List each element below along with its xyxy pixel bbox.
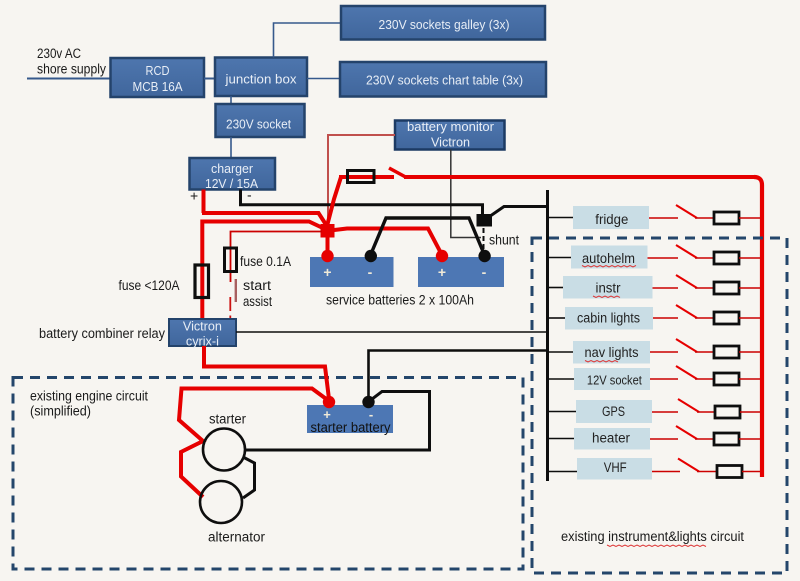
wire segment fridge	[695, 217, 714, 219]
wire bus stub to fridge	[549, 217, 573, 219]
wire positive node to main fuse feed	[202, 222, 327, 320]
label existing engine circuit (simplified)	[30, 389, 148, 419]
svg-text:VHF: VHF	[604, 460, 627, 475]
wire starter motor loop (black)	[245, 392, 430, 451]
wire segment nav lights	[695, 351, 714, 353]
wire segment instr	[695, 287, 714, 289]
wire junction box to 230V socket	[230, 96, 232, 104]
shunt block	[477, 214, 493, 227]
charger 12V/15A	[190, 158, 276, 191]
wire segment heater	[739, 438, 760, 440]
wire positive node to service battery 1 plus	[326, 237, 330, 255]
switch heater	[676, 426, 697, 439]
load row fridge	[549, 205, 760, 229]
wire segment VHF	[697, 471, 717, 473]
svg-text:(simplified): (simplified)	[30, 404, 91, 419]
dashed frame existing engine circuit	[13, 378, 523, 570]
svg-text:GPS: GPS	[602, 404, 625, 419]
wire black bridge battery minus terminals	[371, 218, 485, 255]
svg-text:-: -	[368, 264, 373, 280]
wire thin red to fuse 0.1A	[231, 232, 323, 283]
fuse heater	[714, 433, 739, 445]
switch nav lights	[676, 339, 697, 352]
svg-text:existing instrument&lights cir: existing instrument&lights circuit	[561, 529, 744, 544]
wire segment fridge	[649, 217, 678, 219]
load row heater	[549, 426, 760, 450]
wire bus stub to heater	[549, 438, 574, 440]
wire red zigzag starter feed	[179, 389, 329, 498]
wire segment autohelm	[648, 257, 679, 259]
svg-text:+: +	[438, 264, 446, 280]
terminal battery1 plus	[321, 250, 333, 262]
terminal battery1 minus	[365, 250, 377, 262]
box 230V socket	[216, 104, 305, 137]
terminal starter battery minus	[362, 396, 374, 408]
battery monitor Victron	[395, 120, 505, 150]
breaker RCD MCB 16A	[111, 58, 205, 97]
svg-text:230V socket: 230V socket	[226, 117, 291, 132]
svg-text:nav lights: nav lights	[585, 345, 639, 360]
fuse VHF	[717, 466, 742, 478]
fuse autohelm	[714, 252, 739, 264]
svg-text:fuse 0.1A: fuse 0.1A	[240, 254, 291, 269]
label start assist	[243, 278, 272, 309]
fuse <120A symbol	[195, 265, 209, 298]
fuse 12V socket	[714, 373, 739, 385]
svg-text:-: -	[482, 264, 487, 280]
wire panel feed to red bus	[404, 175, 755, 179]
node positive junction (red block)	[321, 224, 335, 238]
box 230V sockets chart table (3x)	[340, 62, 546, 97]
svg-text:starter: starter	[209, 412, 246, 427]
switch 12V socket	[676, 366, 697, 379]
load row 12V socket	[549, 366, 760, 390]
switch main battery switch	[389, 168, 407, 178]
wire bus stub to 12V socket	[549, 378, 574, 380]
wire starter to alternator link	[243, 457, 255, 498]
wire bus stub to instr	[549, 287, 563, 289]
box instr	[563, 276, 653, 299]
wire bus stub to nav lights	[549, 351, 573, 353]
wire segment autohelm	[739, 257, 760, 259]
red distribution bus	[754, 177, 762, 477]
wire segment 12V socket	[650, 378, 678, 380]
wire segment GPS	[697, 411, 715, 413]
wire segment GPS	[652, 411, 678, 413]
wire start assist (dashed red)	[230, 279, 236, 319]
starter battery	[307, 405, 393, 435]
terminal battery2 plus	[436, 250, 448, 262]
svg-text:230v AC: 230v AC	[37, 46, 81, 61]
load row GPS	[549, 399, 760, 423]
svg-text:fuse <120A: fuse <120A	[119, 278, 180, 293]
wire junction box to galley sockets	[274, 23, 342, 58]
svg-text:230V sockets galley (3x): 230V sockets galley (3x)	[379, 17, 510, 32]
box nav lights	[573, 341, 650, 364]
wire bus stub to autohelm	[549, 257, 571, 259]
box fridge	[573, 206, 649, 229]
shunt dashed link to battery minus	[483, 228, 485, 253]
box VHF	[577, 458, 652, 480]
wire segment cabin lights	[695, 317, 714, 319]
load row cabin lights	[549, 305, 760, 330]
relay Victron cyrix-i	[169, 319, 236, 349]
wire segment GPS	[740, 411, 760, 413]
wire shunt to black bus	[491, 207, 548, 216]
fuse 0.1A symbol	[225, 248, 237, 272]
wire positive node up to panel feed	[327, 177, 341, 226]
wire battery monitor sense (red) to positive node	[328, 135, 395, 222]
dashed frame existing instrument and lights circuit	[532, 238, 787, 573]
svg-text:starter battery: starter battery	[311, 420, 391, 435]
load row nav lights	[549, 339, 760, 364]
switch VHF	[678, 459, 699, 472]
wire segment cabin lights	[739, 317, 760, 319]
fuse cabin lights	[714, 312, 739, 324]
wire segment 12V socket	[739, 378, 760, 380]
fuse nav lights	[714, 346, 739, 358]
load row instr	[549, 275, 760, 299]
svg-text:charger: charger	[211, 161, 254, 176]
squiggle underline autohelm	[582, 266, 636, 267]
svg-text:Victron: Victron	[431, 136, 470, 150]
wire segment nav lights	[739, 351, 760, 353]
service battery 2	[418, 257, 504, 287]
switch cabin lights	[676, 305, 697, 318]
fuse fridge	[714, 212, 739, 224]
svg-text:heater: heater	[592, 431, 630, 446]
junction box U1	[215, 58, 307, 97]
svg-text:battery combiner relay: battery combiner relay	[39, 326, 165, 341]
terminal starter battery plus	[323, 396, 335, 408]
wire segment heater	[695, 438, 714, 440]
wire bus stub to GPS	[549, 411, 576, 413]
svg-text:shunt: shunt	[489, 233, 519, 248]
wire segment nav lights	[650, 351, 678, 353]
starter motor M1	[203, 429, 245, 471]
wire segment fridge	[739, 217, 760, 219]
box GPS	[576, 400, 652, 423]
alternator G1	[200, 481, 242, 523]
box cabin lights	[565, 307, 653, 330]
wire segment VHF	[742, 471, 760, 473]
wire segment 12V socket	[695, 378, 714, 380]
switch instr	[676, 275, 697, 288]
svg-text:+: +	[190, 188, 198, 204]
svg-text:-: -	[247, 187, 252, 203]
wire charger plus (red) to positive node	[202, 190, 328, 228]
wire segment VHF	[652, 471, 680, 473]
svg-text:battery monitor: battery monitor	[407, 120, 494, 134]
svg-text:alternator: alternator	[208, 530, 265, 545]
wire shore supply to RCD	[27, 78, 111, 80]
wire segment heater	[650, 438, 678, 440]
wire bus stub to VHF	[549, 471, 577, 473]
wire 230V socket to charger	[230, 137, 232, 158]
svg-text:service batteries 2 x 100Ah: service batteries 2 x 100Ah	[326, 293, 474, 308]
svg-text:shore supply: shore supply	[37, 62, 106, 77]
squiggle under instrument&lights	[607, 545, 706, 547]
wire panel feed top (red)	[339, 175, 394, 179]
terminal battery2 minus	[478, 250, 490, 262]
service battery 1	[310, 257, 394, 287]
wire cyrix-i to starter battery plus (red)	[202, 346, 329, 399]
svg-text:start: start	[243, 278, 271, 293]
wire junction box to chart table sockets	[307, 78, 340, 80]
svg-text:assist: assist	[243, 294, 272, 309]
wire cyrix-i to black bus	[236, 331, 546, 333]
box heater	[574, 428, 650, 450]
svg-text:12V socket: 12V socket	[587, 373, 642, 388]
svg-text:RCD: RCD	[146, 63, 170, 78]
svg-text:existing engine circuit: existing engine circuit	[30, 389, 148, 404]
svg-text:230V sockets chart table (3x): 230V sockets chart table (3x)	[366, 73, 523, 88]
svg-text:autohelm: autohelm	[582, 251, 635, 266]
box 230V sockets galley (3x)	[341, 6, 545, 40]
wire segment autohelm	[695, 257, 714, 259]
wire red bridge to service battery 2 plus	[330, 229, 442, 256]
svg-text:+: +	[323, 264, 331, 280]
wire segment instr	[653, 287, 679, 289]
wire battery monitor to shunt (grey)	[451, 150, 481, 238]
svg-text:instr: instr	[596, 281, 621, 296]
svg-text:cabin lights: cabin lights	[577, 311, 640, 326]
fuse instr	[714, 282, 739, 294]
fuse GPS	[715, 406, 740, 418]
squiggle underline nav lights	[585, 361, 618, 362]
svg-text:junction box: junction box	[224, 72, 297, 87]
load row autohelm	[549, 245, 760, 269]
box autohelm	[571, 246, 648, 269]
wire starter battery minus to black bus	[369, 351, 547, 402]
wire segment instr	[739, 287, 760, 289]
svg-text:fridge: fridge	[595, 212, 628, 227]
switch GPS	[678, 399, 699, 412]
load row VHF	[549, 458, 760, 480]
svg-text:MCB 16A: MCB 16A	[133, 79, 183, 94]
squiggle underline instr	[593, 296, 620, 297]
svg-text:Victron: Victron	[183, 320, 222, 334]
black bus (negative distribution)	[546, 190, 549, 481]
fuse F-main (panel feed)	[348, 171, 375, 183]
box 12V socket	[574, 368, 650, 390]
switch autohelm	[676, 245, 697, 258]
wire RCD to junction box	[204, 78, 215, 80]
wire segment cabin lights	[653, 317, 678, 319]
wire bus stub to cabin lights	[549, 317, 565, 319]
switch fridge	[676, 205, 697, 218]
wire charger minus (black) to shunt	[241, 190, 483, 216]
node: 230v AC shore supply label	[37, 46, 106, 77]
